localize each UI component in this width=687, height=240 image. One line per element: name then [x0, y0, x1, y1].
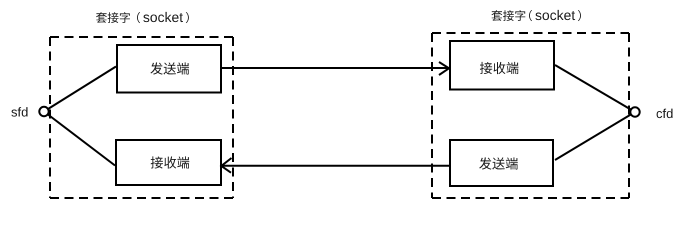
wire sfd to left receiver box — [44, 112, 115, 166]
right receiver label 接收端 — [480, 62, 519, 74]
left title 套接字（socket） — [96, 12, 189, 23]
left receiver box 接收端 — [116, 140, 221, 185]
wire cfd to right receiver box — [555, 65, 635, 112]
wire cfd to right sender box — [555, 112, 635, 160]
wire arrow right sender to left receiver — [221, 158, 449, 173]
node cfd circle — [630, 107, 639, 116]
left sender label 发送端 — [150, 62, 189, 74]
right title 套接字（socket） — [491, 10, 581, 21]
left sender box 发送端 — [117, 45, 221, 93]
wire sfd to left sender box — [44, 67, 116, 112]
wire arrow left sender to right receiver — [222, 62, 449, 75]
node sfd circle — [39, 107, 48, 116]
right sender label 发送端 — [479, 157, 518, 169]
label sfd — [11, 107, 27, 117]
right socket dashed container — [432, 33, 629, 198]
right sender box 发送端 — [450, 140, 553, 186]
label cfd — [657, 109, 673, 119]
right receiver box 接收端 — [450, 41, 554, 90]
left socket dashed container — [50, 37, 233, 198]
left receiver label 接收端 — [151, 156, 190, 168]
